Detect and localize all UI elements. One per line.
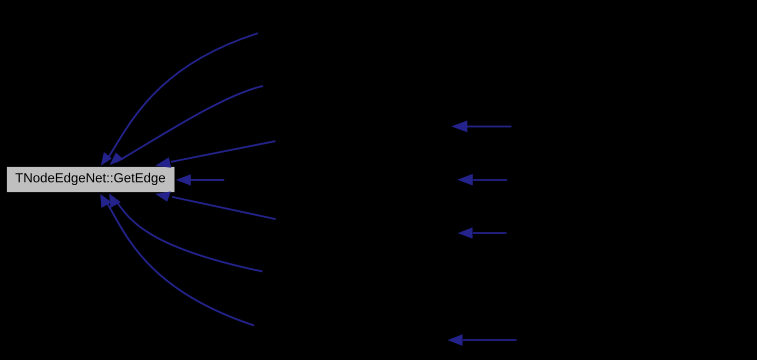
- wire: second-level horizontal edge into caller 3: [467, 126, 512, 128]
- wire: straight edge from caller 3 to GetEdge top-right corner: [171, 141, 276, 162]
- wire: second-level horizontal edge into caller 5: [473, 232, 507, 234]
- arrowhead of edge 6: [109, 194, 121, 209]
- wire: curved edge from caller 1 (top) to GetEdge: [107, 33, 258, 159]
- wire: horizontal edge from caller 4 to GetEdge right side: [189, 179, 224, 181]
- arrowhead of edge 5: [155, 192, 171, 202]
- arrowhead of edge 7: [100, 194, 111, 208]
- arrowhead of second-level edge 1: [451, 121, 467, 133]
- wire: second-level horizontal edge into caller 4: [473, 179, 507, 181]
- arrowhead of edge 1: [101, 152, 112, 166]
- arrowhead of second-level edge 4: [448, 334, 463, 346]
- wire: second-level horizontal edge into caller 7: [463, 339, 517, 341]
- node TNodeEdgeNet::GetEdge (box): [6, 166, 175, 193]
- wire: straight edge from caller 5 to GetEdge bottom-right corner: [172, 197, 276, 219]
- arrowhead of edge 4: [176, 174, 191, 185]
- wire: curved edge from caller 6 to GetEdge: [116, 201, 262, 272]
- arrowhead of edge 2: [110, 152, 124, 165]
- arrowhead of second-level edge 3: [458, 227, 473, 238]
- node label TNodeEdgeNet::GetEdge: [15, 173, 165, 185]
- arrowhead of edge 3: [155, 157, 171, 168]
- wire: curved edge from caller 2 to GetEdge: [116, 86, 263, 162]
- arrowhead of second-level edge 2: [457, 174, 473, 186]
- wire: curved edge from caller 7 (bottom) to GetEdge: [106, 202, 254, 326]
